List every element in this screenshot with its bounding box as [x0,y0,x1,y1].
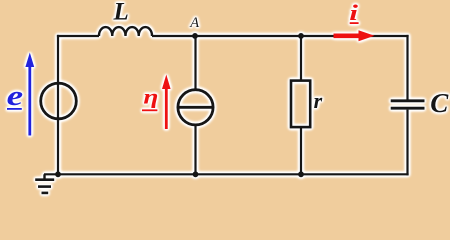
wire middle vertical (bottom) [194,125,196,175]
svg-text:r: r [314,88,323,113]
svg-text:C: C [430,88,449,118]
red arrow i [334,33,361,38]
junction dot bottom resistor [298,171,304,177]
wire top horizontal from inductor to right corner [152,35,409,37]
wire top-left horizontal [57,35,99,37]
wire left vertical [57,35,59,176]
blue arrow e [28,64,31,136]
svg-text:A: A [189,15,199,31]
wire capacitor vertical (bottom) [406,110,408,176]
wire bottom horizontal [44,173,409,175]
current source eta (circle with bar) [178,90,213,125]
junction dot bottom left [55,171,61,177]
underline of e [7,108,22,110]
capacitor C top plate [391,99,425,102]
voltage source e (circle) [41,83,77,119]
underline of eta [142,109,157,111]
svg-text:e: e [7,81,24,112]
wire resistor vertical (bottom) [300,127,302,174]
svg-text:i: i [349,1,358,25]
underline of i [350,22,359,24]
svg-text:L: L [113,0,129,26]
wire resistor vertical (top) [300,36,302,81]
red arrow eta [165,86,168,129]
ground [43,174,45,179]
resistor r [291,81,310,128]
node A junction dot [192,33,198,39]
junction dot top resistor branch [298,33,304,39]
capacitor C bottom plate [391,107,425,110]
svg-text:η: η [143,85,158,109]
inductor L [99,27,152,36]
junction dot bottom middle [193,171,199,177]
wire middle vertical (top) [194,36,196,90]
wire capacitor vertical (top) [406,35,408,100]
